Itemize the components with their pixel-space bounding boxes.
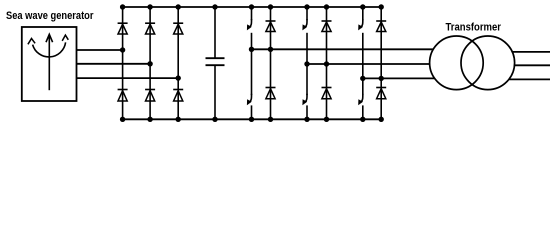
svg-text:Transformer: Transformer (446, 21, 502, 33)
svg-text:Sea wave generator: Sea wave generator (6, 10, 94, 22)
